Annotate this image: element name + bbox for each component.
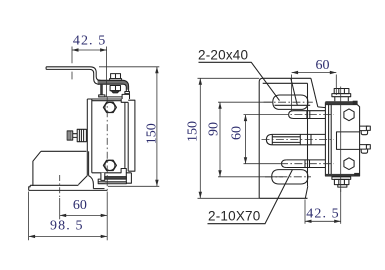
svg-text:42. 5: 42. 5 [73,34,107,49]
nut N2 (below bar) [110,86,120,93]
90 [218,102,221,109]
dim texts left view [50,34,159,234]
dim 42.5R ext right [340,189,342,224]
leader 2-10X70 [208,170,293,224]
bottom bolt [332,177,351,187]
body centerline (dashed) [106,97,108,192]
bend chamfer and lip [78,176,104,189]
dim 98.5 line [29,235,108,237]
arm (Z-bracket top horizontal plate) [46,67,100,84]
leg inner line [88,151,90,175]
svg-text:90: 90 [207,122,222,136]
150 [199,78,202,85]
tab top [360,126,371,135]
hex bolt top [105,102,115,112]
svg-text:60: 60 [316,58,330,73]
circle hole top [344,109,354,121]
bend slant left [291,78,298,105]
thin lines right view [198,73,341,224]
bottom stud [282,160,326,168]
slot centerline bottom [265,176,311,178]
150 arrows [155,67,158,74]
body section centerline [340,87,342,193]
clamp support post [99,84,105,97]
gusset plate [33,151,87,186]
left step of bottom plate [98,179,100,182]
dim 42.5 line [72,49,107,51]
dim 42.5 extension right [106,47,108,97]
body liner right [124,102,126,168]
dim 150 line [156,67,158,187]
nut N1 (above bar) [110,74,122,81]
body liner left [91,99,93,173]
dim 60L line [245,115,247,164]
60 arrows [60,214,66,217]
bottom slot [272,170,308,184]
svg-text:150: 150 [145,123,160,144]
clamp foot band [105,177,127,180]
dim 98.5 ext left [28,192,30,241]
tab bottom [360,145,371,154]
stud centerline top [280,114,334,116]
svg-text:60: 60 [73,198,87,213]
dim 60 ext left (solid part) [59,198,61,219]
stud centerline mid [262,139,335,141]
dim 150 ext top [99,66,159,68]
dim 60T ext right [335,75,337,96]
body block [325,101,359,176]
body top plate [87,99,128,102]
dim 42.5R ext left [304,200,306,224]
body shell left [86,99,88,176]
svg-text:150: 150 [186,121,201,142]
clamp bar (gray filled) [98,80,130,93]
dim 90 ext top [218,101,273,103]
dim 90 ext bottom [218,176,283,178]
base hole centerline (dashed) [59,175,61,198]
dim 60/98.5 ext right [106,192,108,241]
dim 60T ext left [291,75,293,111]
dim 60L ext top [244,114,281,116]
top bolt [332,89,351,102]
svg-text:2-20x40: 2-20x40 [198,48,248,63]
body bottom edge with step [92,169,132,173]
leader 2-20x40 [199,62,280,100]
dim 150 line [199,78,201,198]
98.5 arrows [29,235,35,238]
body shell right [127,102,129,171]
42.5 arrows [72,48,79,51]
mid stud [266,134,325,144]
dim 60L ext bottom [244,163,281,165]
svg-text:98. 5: 98. 5 [50,219,84,234]
dim 150 ext top [198,77,260,79]
bend slant right [311,78,318,107]
dim 42.5R line [305,220,341,222]
dim 150 ext bottom [198,197,260,199]
dim 60T line [292,72,337,74]
42.5R [305,220,312,223]
svg-text:60: 60 [230,126,245,140]
notch [337,132,360,150]
bend crease line through slot [275,104,311,106]
flange plate outline [259,78,311,198]
arrowheads left view [29,48,159,238]
svg-text:2-10X70: 2-10X70 [208,209,260,224]
rear plate [128,100,135,171]
60L [244,115,247,122]
dim 60 line [60,214,107,216]
svg-text:42. 5: 42. 5 [306,207,340,222]
stud centerline bottom [280,163,334,165]
60T [292,71,299,74]
leaders + labels right view [199,62,293,223]
foot box right [126,173,131,183]
small block under body left [101,173,105,181]
top stud [289,111,326,119]
bend step to body [318,106,326,109]
top slot [273,95,308,109]
hex bolt bottom [105,160,115,170]
terminal screw left [67,129,86,141]
dim 150 ext bottom [108,185,159,187]
dim 42.5 extension left [71,47,73,80]
thin lines: dimensions / centerlines (left view) [29,47,160,241]
base plate [29,185,108,190]
dim texts right view [186,58,340,222]
seat line [98,96,122,98]
bottom plate [98,182,126,184]
slot centerline top [264,101,313,103]
dim 90 line [219,102,221,177]
right boss [122,94,129,99]
circle hole bottom [344,158,354,170]
arrowheads right view [199,71,341,223]
